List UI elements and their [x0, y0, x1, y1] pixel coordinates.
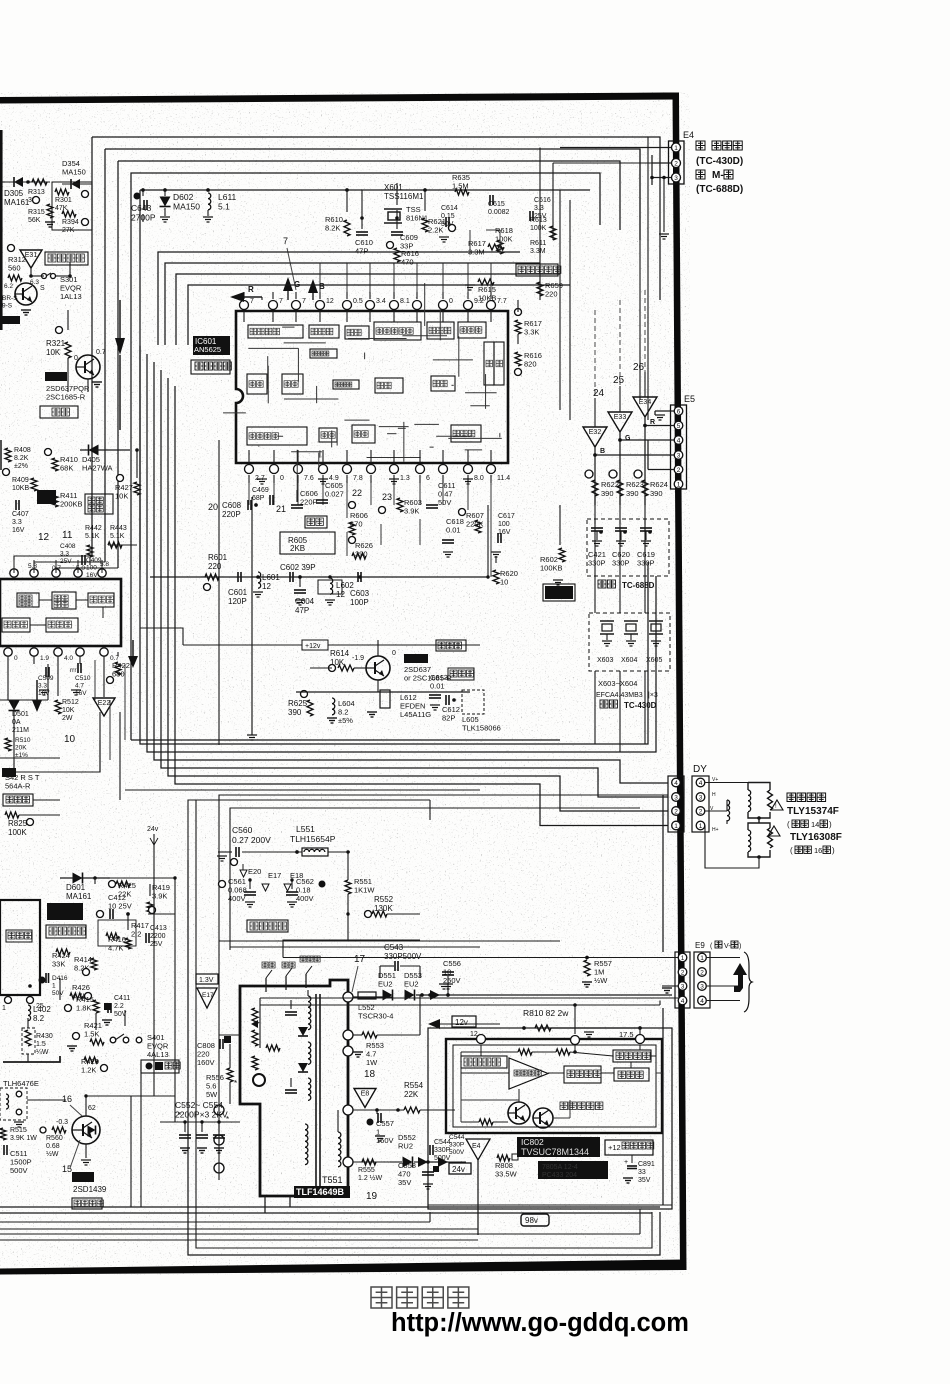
svg-text:0.15: 0.15 [441, 213, 455, 220]
ground symbols scatter [21, 222, 672, 1183]
bottom bus line 3 [0, 1212, 430, 1222]
svg-text:R408: R408 [14, 447, 31, 454]
numeral 16 [62, 1094, 82, 1116]
svg-text:R554: R554 [404, 1081, 424, 1090]
svg-text:L551: L551 [296, 824, 315, 834]
svg-text:BR-S: BR-S [2, 295, 18, 302]
svg-text:R394: R394 [62, 219, 79, 226]
svg-text:C560: C560 [232, 825, 253, 835]
pin7 callout [283, 236, 296, 290]
resistor R409 10KB [3, 469, 38, 493]
svg-text:3.3: 3.3 [12, 519, 22, 526]
transformer switch stubs [262, 956, 320, 992]
svg-text:0.7: 0.7 [96, 349, 106, 356]
svg-text:100: 100 [86, 565, 97, 572]
svg-text:62: 62 [88, 1105, 96, 1112]
resistor R421 1.5K [67, 1021, 104, 1051]
svg-text:0.68: 0.68 [46, 1143, 60, 1150]
svg-text:10K: 10K [62, 707, 75, 714]
E5 ground [648, 411, 674, 470]
svg-text:0.01: 0.01 [430, 682, 445, 691]
label S42RST [2, 768, 40, 791]
svg-text:2W: 2W [62, 715, 73, 722]
svg-text:E34: E34 [639, 399, 652, 406]
svg-text:3.3M: 3.3M [468, 248, 485, 257]
svg-text:4: 4 [677, 437, 681, 444]
svg-text:10 25V: 10 25V [108, 902, 132, 911]
svg-text:+: + [624, 1159, 628, 1166]
svg-text:22K: 22K [404, 1090, 419, 1099]
svg-text:-1.9: -1.9 [352, 655, 364, 662]
switch S301 [29, 268, 82, 301]
resistor R553 4.7 1W [353, 1032, 384, 1067]
E9 dash-dot wires [707, 958, 740, 1001]
svg-text:11.4: 11.4 [497, 475, 510, 482]
svg-text:*: * [178, 1111, 181, 1120]
buffer E32 [583, 427, 607, 455]
capacitor C412 10 25V [97, 893, 132, 919]
capacitor C609 33P [391, 210, 418, 251]
signal G arrow [283, 277, 300, 300]
buffer E8 triangle [354, 1089, 376, 1108]
svg-text:L611: L611 [218, 192, 237, 202]
wire to E9 pin1 [283, 940, 678, 958]
svg-text:0: 0 [392, 650, 396, 657]
svg-text:3: 3 [674, 794, 678, 801]
resistor R552 130K [365, 895, 421, 918]
svg-text:10: 10 [500, 578, 508, 587]
wire 98v [428, 1162, 672, 1205]
resistor R321 10K [46, 327, 71, 359]
E20 marker [240, 864, 261, 877]
resistor R626 390 [349, 537, 373, 560]
diode D501 [9, 701, 30, 735]
svg-text:1.5K: 1.5K [84, 1030, 99, 1039]
capacitors C552-C554 label [175, 1100, 228, 1120]
wires R62x down [595, 496, 645, 752]
IC601 top pin 24 [390, 292, 410, 310]
svg-text:TLF14649B: TLF14649B [296, 1187, 345, 1197]
IC601 bottom pin 11 [439, 465, 448, 484]
capacitor C601 120P [228, 572, 248, 606]
label 2SD637 or 2SC1685-R [404, 654, 453, 683]
svg-text:C408: C408 [60, 543, 76, 550]
svg-text:M-: M- [712, 170, 724, 181]
E9 black arrow [733, 963, 747, 992]
svg-text:2SC1685-R: 2SC1685-R [46, 393, 86, 402]
diode D405 HA27WA [80, 445, 130, 473]
svg-text:½W: ½W [594, 976, 608, 985]
choke L552 TSCR50-4 [358, 992, 393, 1021]
IC401 bottom pin 6 [30, 648, 50, 662]
svg-text:8.2K: 8.2K [14, 455, 29, 462]
resistor R560 0.68 halfW [40, 1127, 66, 1158]
svg-text:X603~X604: X603~X604 [598, 679, 637, 688]
E34 output wire [643, 417, 674, 505]
outer bus rect 4 [131, 173, 600, 740]
svg-text:200KB: 200KB [60, 500, 83, 509]
IC401 block 保护器 [2, 618, 30, 632]
bottom bus line 5 [0, 1209, 640, 1234]
pins below power box [2, 984, 44, 1012]
svg-text:100K: 100K [530, 225, 547, 232]
frame top border bar [0, 93, 678, 104]
transformer pins right [343, 992, 353, 1167]
block 参考电压 [564, 1066, 601, 1083]
IC401 block 台阶波 [17, 593, 39, 607]
svg-text:22K: 22K [118, 890, 131, 899]
capacitor C643 2700P [131, 188, 156, 222]
bottom bus line 4 [0, 1228, 478, 1230]
resistor R551 1K1W [345, 852, 375, 940]
svg-text:2200: 2200 [150, 933, 166, 940]
E9 ground [662, 986, 678, 993]
diode D305 MA161 [4, 177, 50, 207]
resistor R426 4.7K [70, 983, 92, 1001]
svg-text:3: 3 [677, 452, 681, 459]
svg-text:9-S: 9-S [2, 303, 13, 310]
svg-text:47P: 47P [355, 247, 368, 256]
svg-text:14: 14 [811, 820, 819, 829]
svg-text:1: 1 [681, 955, 685, 962]
resistor R410 68K [45, 449, 78, 473]
resistor R810 82 2W [428, 1008, 569, 1031]
svg-text:5.8: 5.8 [100, 561, 109, 568]
svg-text:C411: C411 [114, 995, 130, 1002]
svg-text:E32: E32 [589, 429, 602, 436]
svg-text:MA150: MA150 [62, 168, 86, 177]
svg-text:2: 2 [674, 808, 678, 815]
svg-text:R601: R601 [208, 553, 228, 562]
svg-text:35V: 35V [638, 1177, 651, 1184]
IC401 top pin 13 [30, 560, 38, 577]
svg-text:3.9K: 3.9K [404, 507, 419, 516]
wire q551 [27, 1096, 175, 1158]
capacitor C614 0.15 50V [439, 205, 458, 242]
IC802 riser to E9 wire [573, 1003, 577, 1034]
svg-text:±2%: ±2% [14, 463, 28, 470]
IC802 internal wires [461, 1045, 656, 1122]
transistor Q302 [74, 349, 106, 387]
pin number 25 [613, 375, 625, 386]
label R612 3.3M stub [530, 240, 546, 255]
transformer primary winding top [308, 990, 311, 1030]
svg-text:24v: 24v [147, 826, 159, 833]
svg-text:MA150: MA150 [173, 202, 200, 212]
svg-text:10KB: 10KB [12, 485, 29, 492]
wire top cluster [345, 183, 427, 218]
svg-text:X604: X604 [621, 657, 637, 664]
svg-text:R552: R552 [374, 895, 394, 904]
resistor R427 10K [115, 475, 140, 501]
svg-text:7: 7 [283, 236, 288, 246]
svg-text:R315: R315 [28, 209, 45, 216]
IC401 bottom pin 1 [4, 648, 18, 662]
IC401 bottom pin 8 [76, 648, 84, 656]
svg-text:21: 21 [276, 504, 286, 514]
svg-text:MA161: MA161 [66, 892, 92, 901]
svg-text:R624: R624 [650, 480, 668, 489]
svg-text:7805A 12-4: 7805A 12-4 [542, 1164, 578, 1171]
svg-text:6.2: 6.2 [4, 283, 13, 290]
transistor Q 2SD637 [352, 650, 396, 680]
resistor R610 8.2K [325, 215, 350, 236]
transformer h resistor [266, 1045, 280, 1051]
svg-text:0A: 0A [12, 719, 21, 726]
capacitor C557 1 160V [367, 1108, 394, 1145]
svg-text:19: 19 [366, 1191, 378, 1202]
resistor R415 1.8K [65, 995, 100, 1013]
block 过热保护 [461, 1056, 507, 1068]
top right cluster extra [470, 230, 500, 254]
svg-text:IC802: IC802 [521, 1137, 544, 1147]
transformer core lines [316, 994, 320, 1190]
capacitor C553 [196, 1122, 208, 1153]
svg-text:TC-688D: TC-688D [622, 581, 655, 590]
ceramic L112 EFDEN [367, 686, 431, 719]
svg-text:330P: 330P [588, 559, 606, 568]
IC601 internal block 15 [247, 427, 307, 445]
crystal X603 [597, 621, 614, 664]
resistor R443 5.1K [108, 525, 127, 548]
svg-text:2SD1439: 2SD1439 [73, 1185, 107, 1194]
pin20 label [208, 502, 218, 512]
frame right border bar [673, 93, 687, 1271]
svg-text:26: 26 [633, 362, 645, 373]
svg-text:8.2: 8.2 [33, 1014, 45, 1023]
transformer cap 1 [285, 1000, 297, 1015]
svg-text:1: 1 [677, 481, 681, 488]
transformer secondary winding 1 [305, 1124, 308, 1165]
block 电流源 [614, 1068, 649, 1081]
E4 annotation line3 从 M-板 [696, 170, 733, 181]
svg-text:V-: V- [724, 943, 731, 950]
bus top wire main [140, 190, 590, 570]
node pin18 wires [377, 995, 420, 1035]
lower box right edge [662, 795, 664, 1205]
capacitor C602 39P [280, 563, 316, 582]
left mid verticals [95, 660, 125, 760]
numeral 10 [64, 734, 76, 745]
IC601 top pin 20 [487, 292, 507, 310]
svg-text:TLH15654P: TLH15654P [290, 834, 336, 844]
buffer E4b triangle [466, 1139, 490, 1235]
right bus wires [540, 137, 671, 420]
svg-text:2: 2 [674, 160, 678, 167]
IC601 internal block 5 [427, 322, 454, 339]
wire d601 cluster [60, 878, 175, 1000]
svg-text:470: 470 [401, 258, 414, 267]
numeral 18 [364, 1069, 376, 1080]
thick box power left [0, 900, 40, 995]
svg-text:220P: 220P [222, 510, 241, 519]
svg-text:0.27 200V: 0.27 200V [232, 835, 271, 845]
svg-text:S: S [40, 285, 45, 292]
black box vr [37, 490, 56, 504]
svg-text:C602 39P: C602 39P [280, 563, 316, 572]
svg-text:33.5W: 33.5W [495, 1170, 518, 1179]
svg-text:12: 12 [38, 532, 50, 543]
svg-text:560: 560 [8, 264, 21, 273]
resistor R394 27K [62, 211, 89, 234]
svg-text:0: 0 [280, 475, 284, 482]
transformer pin left col [214, 1105, 224, 1173]
svg-text:8.0: 8.0 [474, 475, 484, 482]
label C615 0.0082 [488, 195, 510, 216]
svg-text:1AL13: 1AL13 [60, 292, 82, 301]
label +12V box [140, 628, 480, 650]
E32 input dash [595, 372, 645, 427]
svg-text:X603: X603 [597, 657, 613, 664]
black box 垂直输出IC [47, 903, 83, 920]
IC802 outer box [428, 1028, 672, 1209]
svg-text:C413: C413 [150, 925, 167, 932]
svg-text:L45A11G: L45A11G [400, 710, 431, 719]
svg-text:17.5: 17.5 [619, 1030, 634, 1039]
svg-text:2.2: 2.2 [114, 1003, 124, 1010]
numeral 15 [62, 1140, 80, 1174]
dashed box trap caps [587, 519, 669, 576]
IC601 internal block 13 [484, 342, 494, 385]
svg-text:7.7: 7.7 [497, 298, 507, 305]
svg-text:RU2: RU2 [398, 1142, 413, 1151]
svg-text:+12v: +12v [305, 643, 321, 650]
chroma low verticals [347, 519, 420, 556]
svg-text:TLY15374F: TLY15374F [787, 806, 839, 817]
svg-text:2200P×3 2KV: 2200P×3 2KV [175, 1110, 228, 1120]
buffer E34 [633, 397, 657, 426]
svg-text:C891: C891 [638, 1161, 655, 1168]
resistor R430 1.5 quarterW [22, 1028, 53, 1056]
capacitor C561 0.068 400V [219, 877, 257, 907]
svg-text:68K: 68K [60, 464, 73, 473]
label 用于 TC-430D [600, 700, 657, 710]
svg-text:R313: R313 [28, 189, 45, 196]
svg-text:½W: ½W [46, 1150, 59, 1158]
capacitor C560 0.27 200V [217, 825, 271, 866]
svg-text:16V: 16V [75, 690, 87, 697]
svg-text:*: * [234, 1079, 237, 1088]
IC401 top pin 14 [10, 560, 18, 577]
box 垂直高度 [85, 494, 113, 514]
resistor R607 220K [459, 509, 484, 534]
svg-text:0: 0 [14, 655, 18, 662]
svg-text:C603: C603 [350, 589, 370, 598]
svg-text:12: 12 [470, 1031, 478, 1038]
transformer diode 2 [298, 1063, 308, 1072]
svg-text:12v: 12v [455, 1018, 468, 1027]
IC802 extra wires [461, 1073, 662, 1122]
svg-text:1.8K: 1.8K [76, 1004, 91, 1013]
svg-text:33K: 33K [52, 960, 65, 969]
IC601 internal block 4 [374, 322, 421, 340]
crystal X601 TSS116M1 [384, 183, 428, 223]
svg-text:H: H [712, 792, 716, 798]
IC401 block 水平振荡 [46, 618, 78, 632]
svg-text:DY: DY [693, 764, 707, 775]
footer site name 广电电器 [371, 1287, 469, 1308]
block 触发电路 [613, 1050, 651, 1062]
resistor R621 2.2K [422, 217, 446, 235]
IC601 bottom pin 8 [367, 465, 376, 484]
E17 marker [262, 871, 281, 891]
svg-text:E31: E31 [25, 252, 38, 259]
capacitor C603 100P [350, 572, 370, 607]
svg-text:10KB: 10KB [478, 294, 496, 303]
left column verticals [14, 664, 120, 800]
svg-text:50V: 50V [438, 498, 451, 507]
dashed box crystals [589, 613, 670, 671]
label 偏转线圈 [787, 793, 826, 802]
IC601 internal block 12 [431, 376, 455, 391]
capacitor C420 330P [612, 519, 630, 568]
inductor L551 TLH15654P [260, 824, 350, 856]
diode arrow right [418, 1157, 448, 1167]
svg-text:1: 1 [699, 823, 703, 830]
svg-text:1.9: 1.9 [40, 655, 49, 662]
diode D553 EU2 [404, 971, 422, 1001]
resistor R556 5.6 5W [206, 1068, 237, 1099]
wire s42 area [16, 740, 100, 815]
E9 brace [744, 952, 752, 1012]
box 惰性开关 [45, 252, 88, 265]
box 基极偏置 [436, 640, 466, 651]
capacitor C554 [213, 1115, 229, 1153]
label C617 100 16V [491, 513, 515, 557]
box 水平幅度 [247, 920, 288, 932]
svg-text:C509: C509 [38, 675, 54, 682]
svg-text:1.5: 1.5 [36, 1041, 46, 1048]
svg-text:4.0: 4.0 [64, 655, 73, 662]
svg-text:TSS116M1: TSS116M1 [384, 192, 424, 201]
svg-text:E17: E17 [202, 992, 214, 999]
IC401 top pin 12 [52, 560, 60, 577]
IC601 top pin 26 [343, 292, 363, 310]
svg-text:4: 4 [681, 998, 685, 1005]
svg-text:0.5: 0.5 [353, 298, 363, 305]
IC601 top pin 1 [269, 292, 284, 310]
diode D551 EU2 [378, 971, 396, 1001]
IC601 top pin 27 [316, 292, 334, 310]
resistor R825 100K [5, 812, 34, 837]
svg-text:B: B [319, 282, 325, 291]
svg-text:1.3V: 1.3V [199, 977, 214, 984]
wire q bottom row [296, 691, 470, 693]
IC802 internal resistor 2 [556, 1049, 570, 1055]
label C618 0.01 [442, 517, 464, 557]
svg-text:TLK158066: TLK158066 [462, 724, 501, 733]
wire above IC401 [14, 560, 102, 573]
label 24v box [449, 1163, 471, 1174]
svg-text:3.3M: 3.3M [530, 248, 546, 255]
capacitor C613 0.01 [429, 673, 448, 698]
crystal X605 [646, 621, 663, 664]
resistor R315 56K [28, 197, 55, 228]
dash inputs to triangles [595, 290, 645, 398]
E18 marker [284, 871, 303, 891]
svg-text:7: 7 [302, 298, 306, 305]
svg-text:6: 6 [677, 408, 681, 415]
svg-text:100KB: 100KB [540, 564, 563, 573]
svg-text:16V: 16V [12, 527, 25, 534]
resistor R606 470 [349, 511, 368, 535]
svg-text:5W: 5W [206, 1090, 218, 1099]
resistor R515 3.9K 1W [0, 1127, 37, 1142]
box 垂直输出 label [46, 925, 86, 938]
svg-text:C544: C544 [449, 1134, 465, 1141]
svg-text:0: 0 [449, 298, 453, 305]
IC601 top pin 28 [292, 292, 307, 310]
